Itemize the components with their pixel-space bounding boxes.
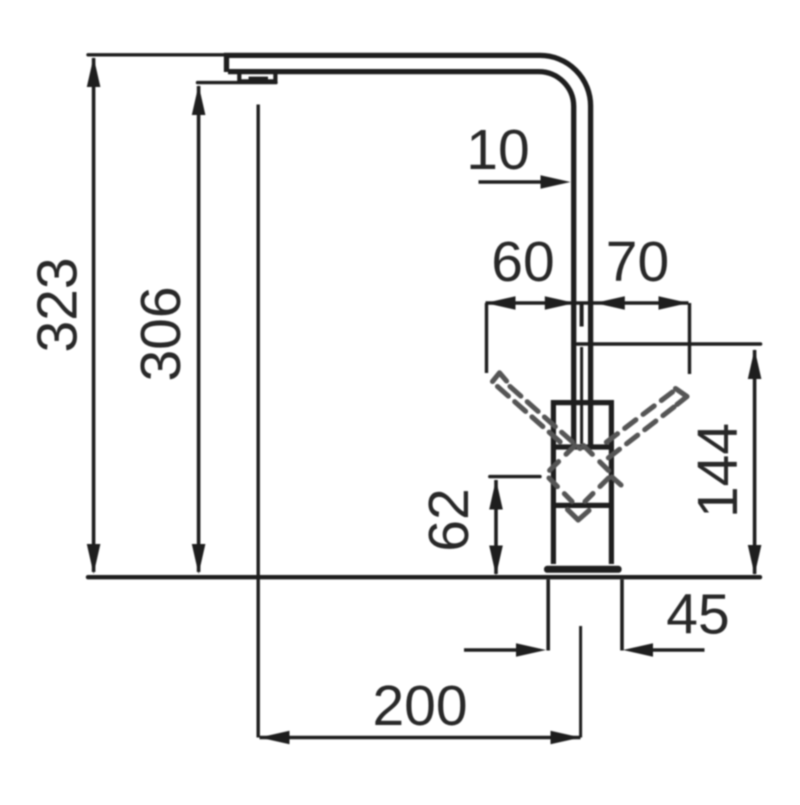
dim 45 leader right	[653, 648, 705, 652]
dim 70 extension line right	[688, 303, 691, 374]
lever right position upper dashed line	[606, 392, 673, 443]
dim 62 line	[494, 480, 498, 574]
dim 60-70 line	[486, 301, 689, 305]
dim 62 extension line (top)	[490, 475, 540, 478]
dim 323 arrow up	[87, 57, 101, 87]
dim 323 line	[92, 58, 96, 572]
base plate	[544, 566, 622, 573]
shank right edge	[620, 580, 624, 651]
svg-text:62: 62	[417, 488, 481, 551]
dim 10 arrow	[541, 175, 571, 189]
dim 60 extension line left	[485, 303, 488, 373]
dim 200 arrow left	[260, 731, 290, 745]
dim 144 arrow up	[748, 349, 762, 379]
lever left position upper dashed line	[510, 387, 580, 449]
shank centerline	[579, 626, 582, 738]
dim 62 arrow up	[489, 480, 503, 510]
dim 200 line	[260, 736, 581, 740]
spout end centerline	[257, 105, 260, 738]
svg-text:60: 60	[491, 230, 554, 294]
spout inner profile	[228, 72, 574, 445]
lever left position lower dashed line	[498, 387, 563, 444]
dim 144 extension line (top)	[577, 342, 761, 346]
body outline	[553, 403, 611, 564]
lever swing envelope top-left edge	[549, 446, 576, 472]
svg-text:144: 144	[686, 423, 750, 518]
lever left position chevron tip	[493, 373, 507, 382]
dim 70 arrow left	[595, 296, 625, 310]
dim 45 leader left	[464, 648, 516, 652]
lever swing envelope bottom vertex	[568, 510, 590, 521]
lever swing envelope top-right edge	[584, 446, 610, 472]
svg-text:70: 70	[606, 230, 669, 294]
svg-text:323: 323	[26, 257, 90, 352]
dim 45 arrow right	[623, 643, 653, 657]
dim 60 arrow right	[545, 296, 575, 310]
dim 70 arrow right	[659, 296, 689, 310]
lever right position lower dashed line	[605, 407, 674, 461]
dim 306 line	[197, 86, 201, 572]
aerator outlet	[249, 77, 268, 83]
lever swing envelope bottom-left edge	[549, 478, 572, 502]
aerator housing	[239, 72, 275, 81]
dim 144 line	[753, 350, 757, 574]
aerator extension line (306 reference)	[198, 81, 277, 84]
svg-text:10: 10	[466, 118, 529, 182]
lever swing envelope bottom-right edge	[585, 478, 609, 502]
countertop baseline	[88, 575, 760, 579]
lever right lower line body dash	[612, 477, 621, 485]
dim 323 extension line (top)	[88, 53, 225, 56]
body divider upper	[551, 444, 614, 449]
dim 200 arrow right	[551, 731, 581, 745]
svg-text:45: 45	[666, 583, 729, 647]
dim 45 arrow left	[516, 643, 546, 657]
spout outer profile	[227, 55, 591, 445]
dim 10 leader line	[479, 180, 546, 184]
dim 306 arrow up	[192, 85, 206, 115]
shank left edge	[546, 580, 550, 651]
body divider lower	[551, 503, 614, 508]
svg-text:306: 306	[129, 286, 193, 381]
body centerline stub upper	[580, 304, 584, 327]
body centerline	[580, 347, 583, 444]
dim 144 arrow down	[748, 545, 762, 575]
svg-text:200: 200	[372, 674, 467, 738]
dim 62 arrow down	[489, 546, 503, 576]
dim 323 arrow down	[87, 544, 101, 574]
dim 60 arrow left	[486, 296, 516, 310]
dim 306 arrow down	[192, 544, 206, 574]
lever right position chevron tip	[676, 389, 688, 405]
